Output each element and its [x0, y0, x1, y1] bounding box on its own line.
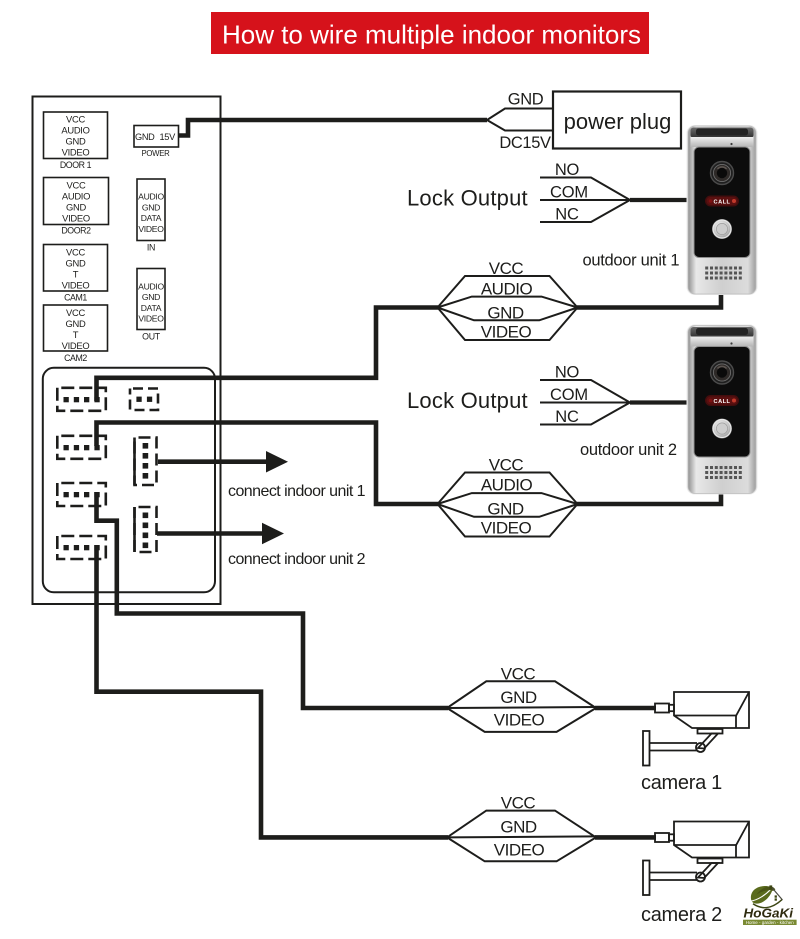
wire J1 to bundle1	[97, 308, 439, 402]
outdoor unit 2	[687, 325, 758, 495]
svg-text:VIDEO: VIDEO	[62, 340, 90, 351]
svg-text:AUDIO: AUDIO	[481, 476, 533, 495]
bundle4 VCC/GND/VIDEO	[447, 794, 596, 862]
title banner	[211, 12, 649, 54]
connector J2	[57, 436, 106, 459]
logo HoGaKi	[743, 885, 797, 925]
svg-text:VIDEO: VIDEO	[481, 519, 532, 538]
arrow to indoor unit 1	[158, 451, 366, 500]
svg-text:camera 2: camera 2	[641, 904, 722, 926]
svg-text:NO: NO	[555, 161, 580, 179]
svg-text:connect indoor unit 1: connect indoor unit 1	[228, 483, 366, 500]
bundle2 VCC/AUDIO/GND/VIDEO	[438, 455, 578, 537]
svg-text:GND: GND	[135, 132, 155, 142]
indoor monitor back panel box	[33, 97, 221, 605]
svg-text:AUDIO: AUDIO	[61, 125, 89, 136]
svg-text:15V: 15V	[160, 132, 177, 142]
svg-text:VIDEO: VIDEO	[481, 322, 532, 341]
port OUT	[137, 269, 165, 342]
outdoor unit 1	[687, 125, 758, 295]
svg-text:GND: GND	[66, 201, 86, 212]
svg-text:connect indoor unit 2: connect indoor unit 2	[228, 551, 366, 568]
wire J3 to bundle3	[97, 492, 449, 708]
wire bundle1 to outdoor unit 1	[577, 292, 721, 308]
svg-text:GND: GND	[66, 136, 86, 147]
svg-text:power plug: power plug	[564, 109, 672, 134]
svg-text:VCC: VCC	[66, 307, 85, 318]
wire bundle3 to camera 1	[595, 706, 656, 711]
svg-text:VCC: VCC	[67, 179, 86, 190]
camera 2	[643, 822, 749, 896]
svg-text:AUDIO: AUDIO	[138, 192, 164, 202]
svg-text:NC: NC	[555, 408, 579, 426]
svg-text:T: T	[73, 268, 79, 279]
connector J3	[57, 483, 106, 506]
connector J1	[57, 388, 106, 411]
svg-text:DC15V: DC15V	[499, 134, 551, 152]
svg-text:IN: IN	[147, 242, 155, 252]
svg-text:outdoor unit 1: outdoor unit 1	[583, 252, 680, 270]
svg-text:DOOR 1: DOOR 1	[60, 160, 92, 170]
svg-text:GND: GND	[500, 817, 537, 836]
svg-text:GND: GND	[487, 500, 524, 519]
wire J4 to bundle4	[97, 545, 449, 837]
svg-text:Lock Output: Lock Output	[407, 388, 528, 413]
svg-text:Lock Output: Lock Output	[407, 186, 528, 211]
svg-text:DATA: DATA	[141, 303, 162, 313]
svg-text:COM: COM	[550, 184, 588, 202]
port DOOR 1	[44, 112, 108, 170]
svg-text:GND: GND	[66, 257, 86, 268]
wire lock1 to outdoor unit 1	[630, 198, 689, 202]
bundle3 VCC/GND/VIDEO	[447, 665, 596, 732]
svg-text:VIDEO: VIDEO	[494, 710, 545, 729]
svg-text:VIDEO: VIDEO	[138, 314, 164, 324]
svg-text:VCC: VCC	[489, 259, 524, 278]
connector block (inner rounded box)	[43, 368, 215, 593]
wire bundle2 to outdoor unit 2	[577, 492, 721, 505]
svg-text:NO: NO	[555, 364, 580, 382]
connector J4	[57, 536, 106, 559]
connector V1 (vertical)	[135, 438, 157, 486]
svg-text:VIDEO: VIDEO	[62, 147, 90, 158]
svg-text:VCC: VCC	[501, 665, 536, 684]
camera 1	[643, 692, 749, 766]
svg-text:GND: GND	[487, 303, 524, 322]
svg-text:AUDIO: AUDIO	[62, 190, 90, 201]
svg-text:CAM2: CAM2	[64, 353, 87, 363]
svg-text:DATA: DATA	[141, 213, 162, 223]
svg-text:VCC: VCC	[66, 246, 85, 257]
svg-text:CAM1: CAM1	[64, 293, 87, 303]
svg-text:HoGaKi: HoGaKi	[744, 907, 794, 921]
svg-text:GND: GND	[500, 688, 537, 707]
svg-text:VCC: VCC	[501, 794, 536, 813]
svg-text:GND: GND	[66, 318, 86, 329]
svg-text:VIDEO: VIDEO	[62, 212, 90, 223]
port DOOR2	[44, 178, 109, 236]
svg-text:VIDEO: VIDEO	[138, 224, 164, 234]
svg-text:camera 1: camera 1	[641, 772, 722, 794]
svg-text:outdoor unit 2: outdoor unit 2	[580, 441, 677, 459]
port IN	[137, 179, 165, 252]
port POWER GND 15V	[134, 126, 179, 158]
svg-text:Home - garden - kitchen: Home - garden - kitchen	[746, 920, 795, 925]
wire power to plug	[179, 120, 488, 136]
svg-text:GND: GND	[508, 91, 544, 109]
svg-text:AUDIO: AUDIO	[481, 279, 533, 298]
svg-text:VCC: VCC	[66, 114, 85, 125]
svg-text:How to wire multiple indoor mo: How to wire multiple indoor monitors	[222, 20, 641, 50]
connector J5 (2-pin)	[130, 389, 158, 411]
Lock Output 2	[407, 364, 630, 427]
svg-text:DOOR2: DOOR2	[61, 226, 91, 236]
svg-text:POWER: POWER	[142, 149, 171, 158]
power fan GND/DC15V	[487, 91, 553, 152]
svg-text:AUDIO: AUDIO	[138, 281, 164, 291]
wire bundle4 to camera 2	[595, 835, 656, 840]
bundle1 VCC/AUDIO/GND/VIDEO	[438, 259, 578, 341]
power plug box	[553, 92, 681, 149]
svg-text:GND: GND	[142, 202, 160, 212]
svg-text:VIDEO: VIDEO	[494, 840, 545, 859]
svg-text:T: T	[73, 329, 79, 340]
port CAM2	[44, 305, 108, 363]
wire lock2 to outdoor unit 2	[630, 400, 689, 404]
wire J2 to bundle2	[97, 423, 439, 505]
svg-text:OUT: OUT	[142, 331, 161, 341]
arrow to indoor unit 2	[157, 523, 366, 568]
svg-text:GND: GND	[142, 292, 160, 302]
svg-text:NC: NC	[555, 206, 579, 224]
port CAM1	[44, 245, 108, 303]
svg-text:COM: COM	[550, 386, 588, 404]
svg-text:VCC: VCC	[489, 455, 524, 474]
connector V2 (vertical)	[135, 507, 157, 552]
Lock Output 1	[407, 161, 630, 224]
svg-text:VIDEO: VIDEO	[62, 279, 90, 290]
